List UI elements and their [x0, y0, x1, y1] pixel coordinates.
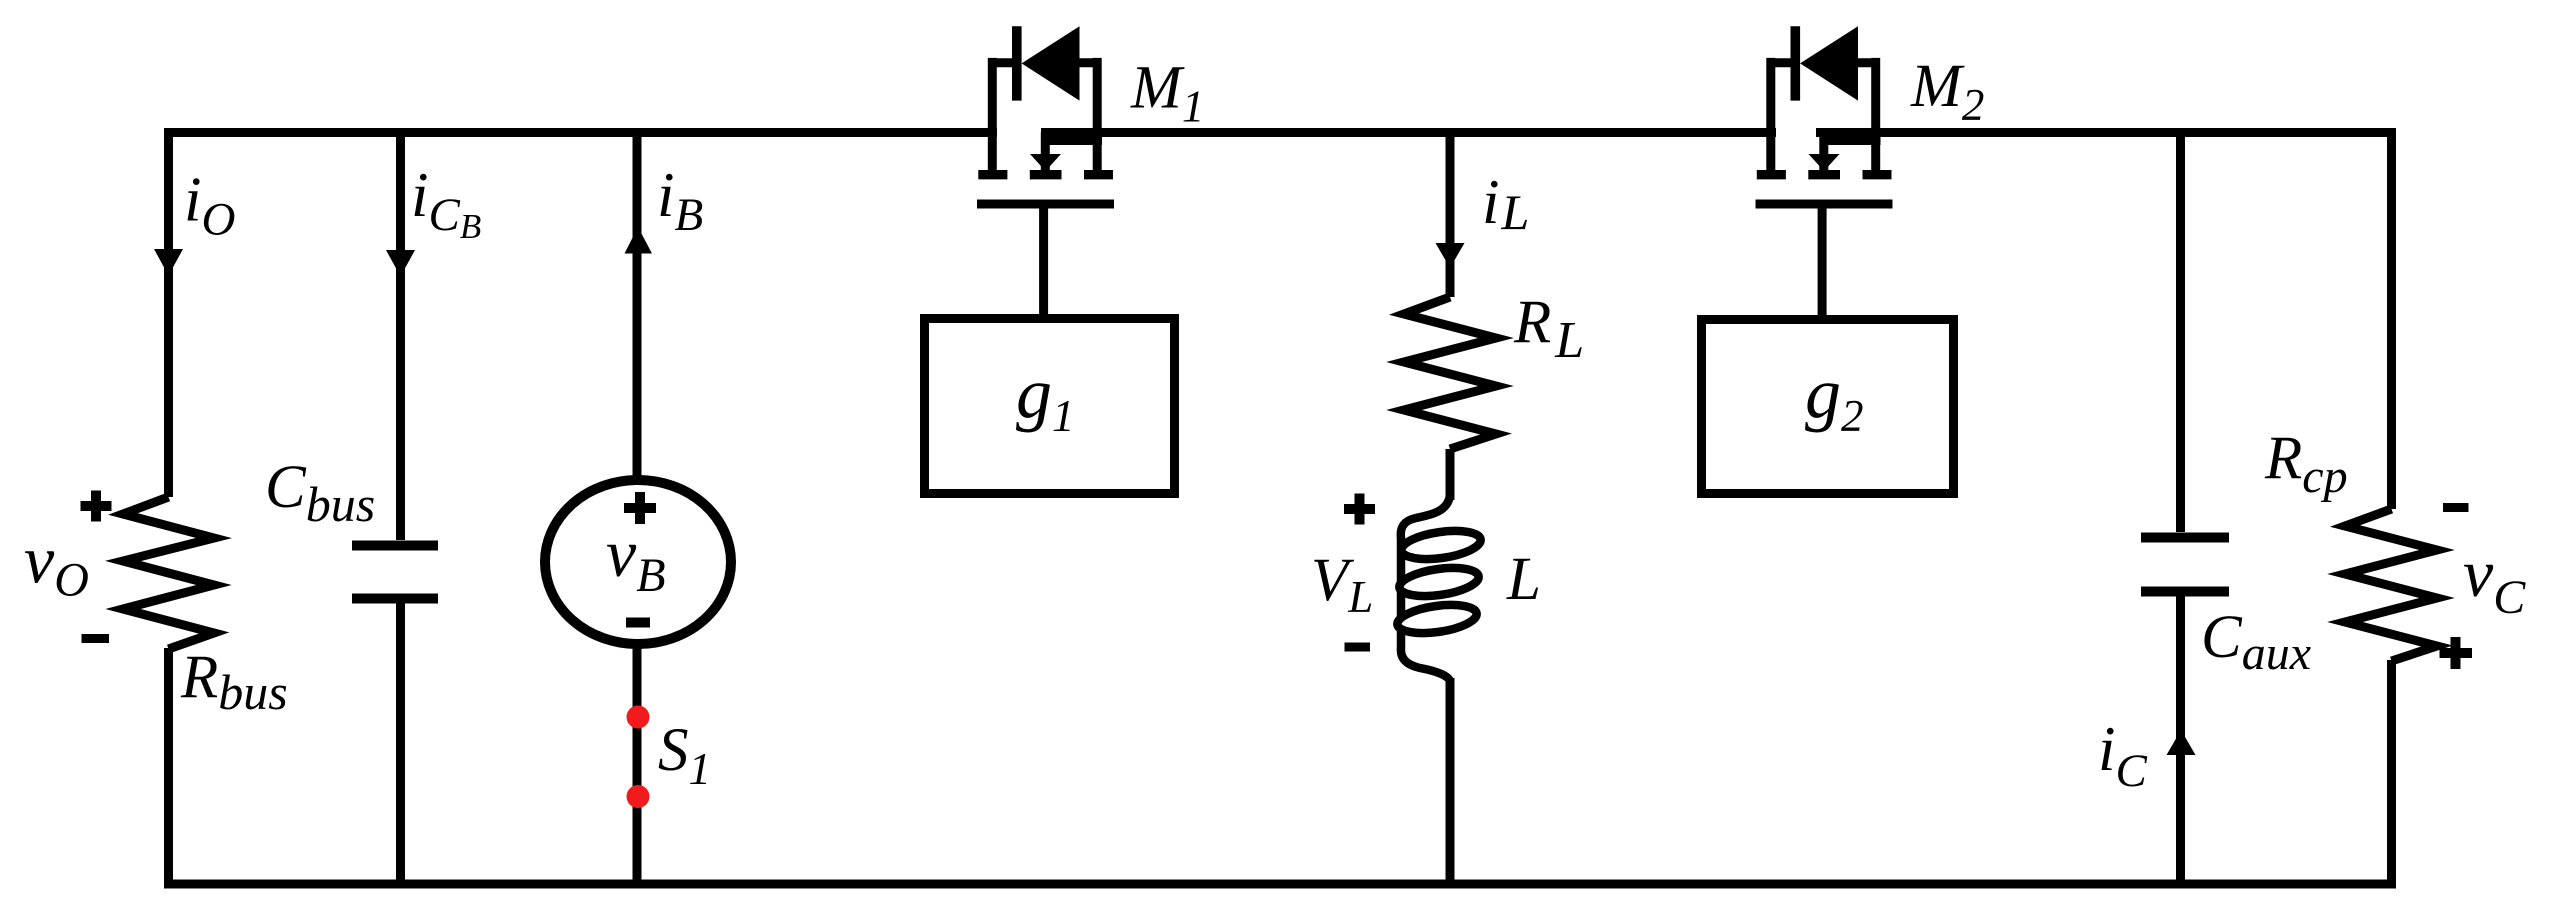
svg-text:vB: vB: [606, 515, 666, 602]
wire C_bus branch lower: [396, 603, 405, 884]
svg-text:g2: g2: [1805, 353, 1864, 441]
label i_C: [2098, 714, 2148, 797]
wire top rail right segment: [1816, 128, 2396, 137]
svg-text:vC: vC: [2463, 535, 2526, 624]
label v_B: [606, 515, 666, 602]
wire middle branch lower: [1446, 678, 1455, 884]
wire C_aux branch lower: [2176, 596, 2185, 884]
label R_bus: [180, 644, 288, 720]
label i_L: [1482, 167, 1529, 240]
resistor R_bus: [123, 497, 214, 649]
wire top rail middle segment: [1041, 128, 1776, 137]
svg-text:g1: g1: [1016, 353, 1075, 441]
svg-text:Rcp: Rcp: [2264, 425, 2348, 503]
minus sign of v_C: [2443, 503, 2469, 512]
svg-text:iB: iB: [657, 160, 703, 241]
transistor M1: [977, 26, 1114, 314]
svg-text:Caux: Caux: [2201, 604, 2311, 680]
label M1: [1130, 55, 1204, 132]
wire right branch lower: [2387, 660, 2396, 884]
switch S1 red dot upper: [627, 706, 650, 729]
wire bottom rail: [164, 880, 2396, 889]
wire middle branch upper: [1446, 132, 1455, 297]
wire left branch lower: [164, 648, 173, 884]
plus sign of V_L: [1344, 494, 1375, 525]
label R_cp: [2264, 425, 2348, 503]
label i_O: [184, 165, 235, 246]
resistor R_L: [1404, 297, 1496, 449]
capacitor C_bus: [352, 546, 438, 599]
label v_O: [24, 522, 89, 607]
plus sign of v_O: [81, 491, 112, 522]
arrow i_CB: [386, 250, 415, 277]
svg-text:Rbus: Rbus: [180, 644, 288, 720]
svg-text:vO: vO: [24, 522, 89, 607]
svg-text:S1: S1: [658, 717, 711, 794]
gate box g1: [925, 319, 1175, 494]
svg-text:M1: M1: [1130, 55, 1204, 132]
label g1: [1016, 353, 1075, 441]
inductor L: [1396, 495, 1483, 682]
source v_B: [545, 480, 731, 644]
arrow i_B: [625, 227, 653, 254]
minus sign of v_B: [626, 618, 650, 628]
minus sign of v_O: [82, 634, 110, 643]
label V_L: [1311, 547, 1373, 622]
svg-text:RL: RL: [1513, 289, 1584, 369]
arrow i_L: [1436, 243, 1465, 268]
label L: [1506, 546, 1541, 613]
gate box g2: [1702, 320, 1954, 494]
transistor M2: [1756, 26, 1893, 315]
svg-text:iO: iO: [184, 165, 235, 246]
svg-text:iC: iC: [2098, 714, 2148, 797]
wire top rail left segment: [164, 128, 997, 137]
svg-text:iCB: iCB: [411, 160, 481, 246]
label S1: [658, 717, 711, 794]
svg-text:M2: M2: [1910, 53, 1984, 130]
label i_B: [657, 160, 703, 241]
wire middle branch middle: [1446, 449, 1455, 500]
resistor R_cp: [2345, 509, 2437, 661]
wire C_bus branch upper: [396, 132, 405, 540]
wire v_B branch upper: [633, 132, 642, 476]
label v_C: [2463, 535, 2526, 624]
label C_bus: [265, 454, 375, 532]
wire left branch upper: [164, 128, 173, 497]
plus sign of v_B: [624, 492, 656, 524]
plus sign of v_C: [2440, 637, 2473, 669]
label M2: [1910, 53, 1984, 130]
arrow i_C: [2167, 730, 2196, 755]
minus sign of V_L: [1345, 643, 1371, 652]
wire right branch upper: [2387, 128, 2396, 509]
svg-text:iL: iL: [1482, 167, 1529, 240]
label g2: [1805, 353, 1864, 441]
arrow i_O: [154, 249, 183, 276]
capacitor C_aux: [2141, 538, 2229, 592]
svg-text:Cbus: Cbus: [265, 454, 375, 532]
label C_aux: [2201, 604, 2311, 680]
switch S1 red dot lower: [627, 785, 650, 808]
svg-text:L: L: [1506, 546, 1541, 613]
label i_CB: [411, 160, 481, 246]
label R_L: [1513, 289, 1584, 369]
svg-text:VL: VL: [1311, 547, 1373, 622]
wire C_aux branch upper: [2176, 132, 2185, 532]
wire v_B branch lower: [633, 640, 642, 884]
